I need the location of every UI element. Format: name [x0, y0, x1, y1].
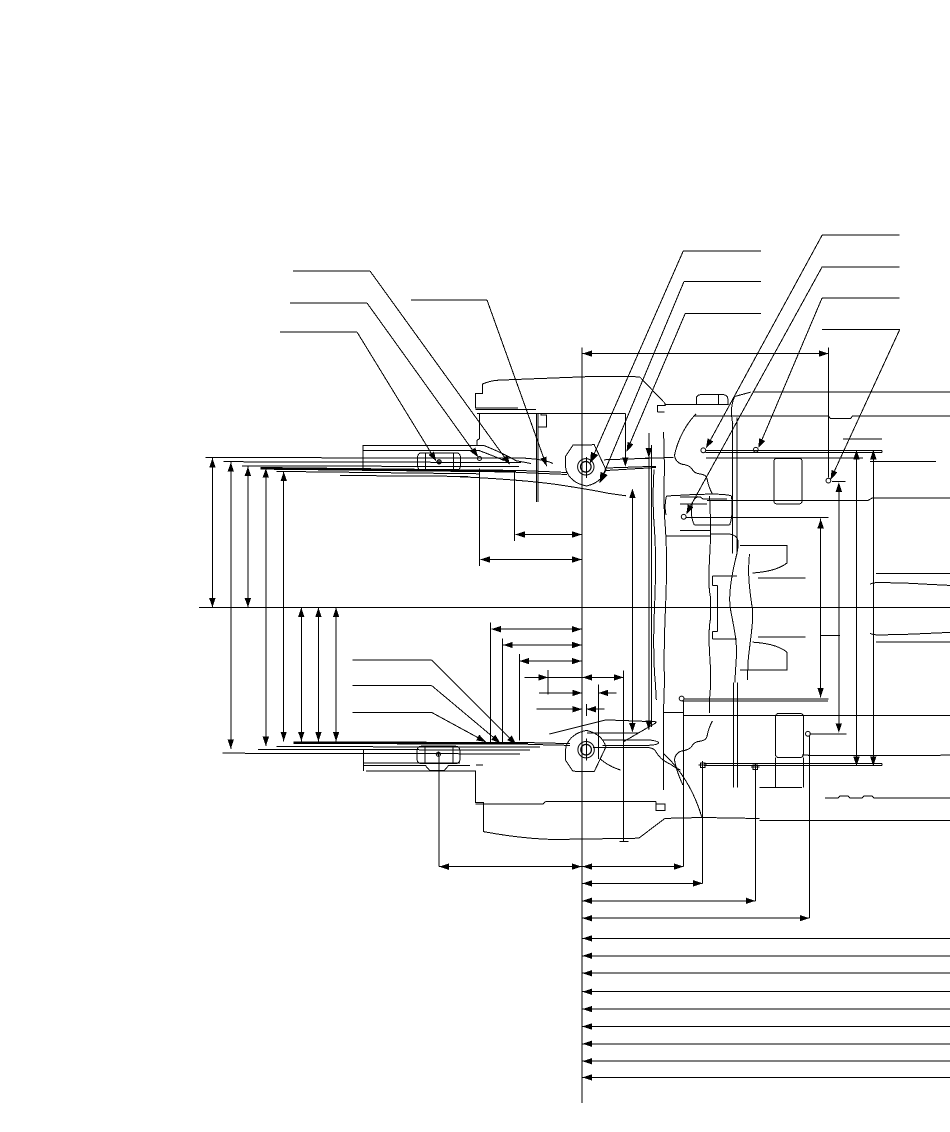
upper wavy S edge — [730, 554, 737, 683]
lower arc to block — [663, 753, 701, 816]
lower body edge vertical 663 — [663, 713, 665, 791]
top arm tick — [645, 457, 655, 459]
dimension arrow y534 — [516, 531, 582, 537]
extension line 598 — [598, 685, 600, 759]
top pivot tick line — [585, 457, 587, 478]
body top line to right edge — [753, 391, 950, 393]
lower body verticals 733-737 — [734, 683, 738, 788]
upper tongue — [740, 546, 805, 579]
upper reference tick at 481 — [832, 480, 846, 482]
bottom long row 9 — [582, 1006, 950, 1012]
body line y462 right edge — [870, 461, 936, 463]
vertical dimension at 838 — [836, 482, 842, 732]
bottom holder outline — [364, 749, 476, 771]
body verticals 733-737 — [733, 418, 737, 554]
top pivot inner circle — [581, 462, 592, 473]
body step with pointer arrow — [622, 413, 628, 466]
bottom block top line — [476, 801, 656, 804]
top holder clamp — [418, 453, 461, 470]
lower left arc — [601, 759, 621, 770]
body line y412 right — [658, 411, 665, 413]
extension line 623 — [622, 670, 624, 841]
bottom long row 13 — [582, 1074, 950, 1080]
dimension arrow y661 — [520, 658, 582, 664]
bottom long row 6 — [582, 953, 950, 959]
leader line E — [590, 251, 761, 463]
lower right arc — [656, 752, 680, 770]
tick at 623 bottom — [620, 841, 629, 843]
leader line H — [701, 235, 900, 452]
top holder outline — [363, 445, 531, 470]
body line y416 with notch — [694, 416, 950, 419]
lower tongue — [740, 637, 805, 670]
extension line 519 — [519, 654, 521, 741]
body inner slot notch — [538, 413, 547, 427]
left dimension arrow 8 — [333, 608, 339, 742]
body hook curl — [728, 534, 738, 554]
extension line 502 — [501, 638, 503, 743]
leader line G — [627, 314, 762, 452]
left dimension arrow 7 — [315, 608, 321, 742]
bottom block right lines — [665, 818, 950, 821]
leader line A — [293, 271, 510, 465]
body lines left steps — [680, 497, 727, 504]
lower blade line under hub — [593, 748, 656, 753]
vertical dimension at 649 — [646, 433, 652, 730]
right ledge line upper — [876, 572, 950, 574]
bottom pivot ext tick — [586, 704, 588, 716]
dimension arrow y645 — [503, 642, 581, 648]
bottom holder screw — [436, 752, 441, 757]
extension line 514 — [514, 472, 516, 542]
lower body line y715 right — [683, 714, 950, 716]
extension line from bottom holder screw — [438, 757, 440, 867]
mouth C-shape — [713, 576, 738, 639]
bottom long row 12 — [582, 1058, 950, 1064]
main vertical axis line — [581, 348, 583, 1103]
body line at 700 — [682, 700, 828, 702]
bottom row 3 — [582, 898, 755, 904]
bottom blade tip loop — [603, 740, 659, 746]
body right arc edge — [731, 392, 750, 424]
bottom row 1 left segment — [439, 863, 582, 869]
body line under cap — [477, 412, 626, 414]
bottom pivot inner circle — [581, 744, 592, 755]
lower arm upper line — [549, 720, 656, 734]
vertical dimension at 632 — [629, 489, 635, 733]
body top-right tab — [696, 395, 728, 405]
left dimension arrow 5 — [281, 472, 287, 742]
top blade leaf 3 — [242, 465, 519, 468]
lower arm plate line — [587, 732, 639, 734]
top pivot hub outline — [565, 445, 606, 486]
top blade leaf 6 — [340, 475, 468, 478]
bottom blade leaf 4 — [222, 752, 520, 755]
lower body slot — [775, 714, 803, 788]
top blade leaf 2 — [224, 461, 521, 464]
left dimension arrow 2 — [228, 462, 234, 749]
bottom pivot tick line — [585, 739, 587, 761]
body inner slot verticals — [537, 413, 539, 502]
bottom row 2 — [582, 880, 703, 886]
extension 755 to row3 — [754, 772, 756, 901]
leader line M — [353, 686, 501, 744]
bottom long row 10 — [582, 1023, 950, 1029]
lower reference circle at 808 — [806, 731, 811, 736]
body line y458 — [706, 457, 863, 459]
dimension arrow y559 — [480, 556, 581, 562]
body wavy edge 710 — [709, 496, 711, 713]
body cap left lower edge — [477, 413, 480, 445]
lower reference line at 698 — [679, 696, 828, 701]
body mid step lines — [667, 531, 729, 537]
bottom blade leaf 3 — [258, 748, 530, 751]
leader line C — [280, 332, 441, 464]
body top cap outline — [476, 376, 666, 412]
left dimension arrow 3 — [245, 466, 251, 607]
lower body neck curve — [675, 721, 713, 785]
top blade leaf 5 — [276, 471, 480, 473]
leader line K — [822, 329, 900, 483]
top dimension right extension line — [828, 348, 830, 478]
top blade leaf 1 — [205, 458, 553, 464]
top pivot outer circle — [578, 459, 594, 475]
lower body line y755 right — [802, 754, 950, 756]
extension 702 to row2 — [702, 770, 704, 884]
body neck curve upper — [675, 414, 713, 494]
left dimension arrow 6 — [298, 608, 304, 742]
bottom pivot outer circle — [578, 742, 594, 758]
leader line F — [600, 282, 762, 484]
top arm upper line — [604, 457, 674, 459]
bottom row 1 right segment — [582, 863, 683, 869]
vertical dimension at 820 — [817, 519, 823, 698]
leader line D — [411, 300, 547, 467]
lower arm diagonal edge — [623, 723, 657, 743]
left dimension arrow 4 — [263, 468, 269, 746]
top holder screw — [437, 459, 442, 464]
upper reference line at 517 — [686, 516, 829, 518]
pivot bottom hub outline — [565, 730, 606, 771]
bar dimension at 856 — [853, 450, 859, 766]
left dimension arrow 1 — [209, 458, 215, 607]
dimension y693 outside arrows — [539, 690, 616, 696]
leader line I — [681, 267, 899, 519]
lower body line y712 — [664, 712, 684, 714]
lower reference tick at 733 — [809, 733, 846, 735]
extension line 490 — [490, 623, 492, 743]
right ledge line lower — [876, 641, 950, 643]
lower body line y797 right — [760, 786, 803, 788]
top horizontal dimension arrow — [582, 350, 829, 356]
extension from circle 808 down — [808, 736, 810, 918]
body line under tab — [665, 403, 729, 405]
body cap lower double line — [476, 408, 536, 409]
stub line at 635 — [821, 634, 840, 636]
body wavy edge 665 — [664, 432, 667, 713]
right wavy edge — [747, 554, 752, 680]
dimension arrow y629 — [491, 626, 581, 632]
upper bar — [706, 450, 882, 452]
bottom block small square — [656, 801, 665, 810]
vertical line at 651 — [650, 445, 652, 727]
body slot rounded rect — [774, 458, 802, 504]
short line above bar right — [843, 438, 882, 440]
top blade underside curve — [455, 477, 626, 496]
leader line N — [353, 712, 487, 742]
bottom long row 5 — [582, 935, 950, 941]
body line y500 with jog — [707, 498, 950, 501]
right shaft upper edge — [870, 582, 950, 585]
bottom long row 7 — [582, 970, 950, 976]
bottom row 4 — [582, 915, 809, 921]
lower body line y798 bumps — [825, 796, 950, 798]
lower bar square clinch 1 — [699, 761, 708, 770]
bottom block holder lines — [476, 764, 483, 766]
leader line L — [353, 660, 517, 745]
bottom block outline — [476, 771, 666, 839]
lower bar square clinch 2 — [751, 763, 760, 772]
right shaft lower edge — [870, 632, 950, 635]
extension from arm circle to row1 — [682, 701, 684, 867]
bottom long row 8 — [582, 989, 950, 995]
bar dimension at 873 — [870, 450, 876, 766]
bottom holder clamp — [417, 746, 460, 763]
lower bar — [704, 764, 882, 766]
extension line 479 — [479, 469, 481, 567]
body rounded pocket below hub — [665, 494, 732, 525]
bottom blade leaf 2 — [276, 746, 540, 749]
bottom long row 11 — [582, 1041, 950, 1047]
top arm lower line — [606, 466, 656, 470]
dimension y677 chained — [524, 674, 623, 680]
horizontal centerline — [199, 607, 950, 609]
leader line B — [290, 303, 482, 461]
extension line 548 — [547, 670, 549, 694]
body wavy edge 654 — [653, 470, 656, 701]
bottom blade clamped leaf (thick) — [293, 743, 570, 746]
dimension y709 outside arrows — [537, 706, 605, 712]
leader line J — [753, 298, 899, 452]
top blade clamped leaf (thick) — [261, 468, 568, 474]
